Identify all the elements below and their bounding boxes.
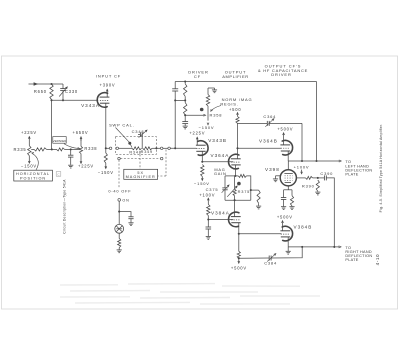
svg-text:C348: C348 — [132, 129, 145, 134]
dashed drop right — [158, 150, 166, 177]
ground — [289, 207, 294, 210]
svg-text:+100V: +100V — [199, 192, 215, 197]
svg-text:C330: C330 — [65, 89, 78, 94]
node rail drop — [174, 147, 176, 149]
wire R390 row — [297, 177, 306, 179]
svg-text:C390: C390 — [320, 171, 333, 176]
switch contact ON — [118, 198, 130, 202]
power +225V below R338 — [78, 160, 94, 169]
svg-text:V343A: V343A — [81, 103, 100, 108]
node — [238, 233, 240, 235]
svg-text:V384B: V384B — [294, 225, 313, 230]
wire drop from rail — [316, 82, 318, 162]
wire branch to C — [119, 212, 131, 217]
section header OUTPUT AMPLIFIER — [222, 70, 249, 80]
wire — [313, 177, 325, 179]
svg-text:+225V: +225V — [189, 131, 205, 136]
wire input top with signal arrow — [29, 82, 64, 85]
wire right deflection row — [288, 246, 341, 248]
wire row — [106, 147, 110, 149]
resistor R349 — [141, 147, 153, 154]
power -150V below R335 — [21, 159, 37, 169]
svg-text:+500: +500 — [229, 107, 241, 112]
svg-text:C384: C384 — [264, 261, 277, 266]
capacitor to ground — [128, 217, 133, 223]
node — [333, 246, 335, 248]
wire branch to R377 — [251, 189, 259, 191]
wire grid of V343A — [52, 99, 99, 101]
power -150V below R358 — [199, 123, 215, 130]
resistor R385 — [237, 251, 240, 258]
ground — [315, 192, 320, 195]
switch contact — [109, 147, 112, 150]
node — [201, 161, 203, 163]
svg-text:+225V: +225V — [78, 164, 94, 169]
capacitor C357 to ground — [182, 115, 188, 126]
resistor R381 — [207, 204, 210, 215]
wire cathode V364A — [234, 165, 236, 176]
left margin caption — [62, 179, 66, 234]
svg-text:Fig. 4-5. Simplified Type 541A: Fig. 4-5. Simplified Type 541A Horizonta… — [379, 124, 383, 213]
dashed calibration box — [116, 137, 157, 155]
svg-text:−150V: −150V — [21, 164, 37, 169]
capacitor C358 in drop — [172, 89, 178, 91]
ground — [183, 126, 188, 129]
tube V384B — [280, 225, 312, 241]
svg-text:V364A: V364A — [211, 153, 230, 158]
svg-text:+500V: +500V — [277, 214, 293, 219]
capacitor C364 variable — [263, 114, 302, 127]
wire rail left drop — [174, 82, 176, 89]
svg-text:R650: R650 — [34, 89, 47, 94]
power +500V at V364B — [277, 127, 293, 145]
resistor R357 — [184, 103, 187, 116]
svg-text:C375: C375 — [206, 187, 219, 192]
wire — [184, 96, 186, 102]
ground below V384B cathode — [286, 247, 291, 254]
resistor R356 — [184, 82, 187, 97]
VERNIER control box — [52, 137, 79, 150]
section header INPUT CF — [96, 74, 121, 79]
wire grid row V364B — [238, 147, 282, 149]
node — [301, 246, 303, 248]
svg-text:R338: R338 — [84, 146, 97, 151]
node — [315, 160, 317, 162]
wire wiper row — [31, 148, 34, 150]
svg-text:ON: ON — [122, 198, 129, 202]
capacitor C348 variable — [132, 129, 147, 148]
label TO LEFT HAND DEFLECTION PLATE — [345, 160, 372, 176]
wire grid row V384A — [208, 219, 233, 221]
svg-text:GAIN: GAIN — [214, 171, 227, 176]
switch contact — [118, 157, 121, 160]
svg-text:+500V: +500V — [277, 127, 293, 132]
power +100V at V384A grid — [199, 192, 215, 204]
node — [70, 148, 72, 150]
wire mag-gain bottom — [225, 199, 251, 201]
svg-text:R358: R358 — [210, 113, 223, 118]
wire grid row V384B — [239, 233, 282, 235]
svg-text:+100V: +100V — [294, 164, 310, 169]
switch contact — [160, 147, 163, 150]
tube V384A — [211, 210, 241, 226]
svg-text:PLATE: PLATE — [345, 258, 358, 262]
switch contact — [116, 147, 119, 150]
section header DRIVER CF — [188, 70, 209, 80]
svg-text:DRIVER: DRIVER — [271, 72, 292, 77]
wire — [118, 233, 120, 238]
dashed drop to magnifier box — [139, 154, 141, 169]
wire cathode V364B — [287, 151, 289, 161]
ground below C336 — [68, 165, 73, 168]
resistor R394 — [306, 176, 313, 179]
capacitor C330 variable — [59, 84, 78, 100]
wire down from R650 junction — [51, 100, 53, 149]
wire C390 to right column — [326, 178, 334, 247]
power +500 supply — [229, 107, 241, 116]
svg-text:CF: CF — [194, 74, 201, 79]
svg-text:AMPLIFIER: AMPLIFIER — [222, 74, 249, 79]
ground — [117, 250, 122, 253]
neon lamp B395 — [115, 224, 124, 233]
label C375 — [206, 187, 219, 192]
node — [238, 257, 240, 259]
potentiometer R335 — [14, 141, 32, 159]
wire — [207, 216, 209, 222]
power +500V at V384B — [277, 214, 293, 230]
resistor R390 to ground — [316, 180, 319, 192]
capacitor C390 — [320, 171, 333, 180]
ground — [281, 207, 286, 210]
svg-text:−150V: −150V — [98, 170, 114, 175]
resistor R343 to -150V — [98, 148, 114, 175]
svg-text:V343B: V343B — [208, 138, 227, 143]
wire cathode V343B — [201, 151, 203, 162]
svg-text:5X: 5X — [137, 171, 144, 175]
wire row — [119, 147, 132, 149]
power -150V — [194, 177, 210, 187]
resistor R361 — [201, 165, 204, 177]
svg-text:R335: R335 — [14, 147, 27, 152]
footnote marker box — [56, 172, 61, 177]
node — [236, 147, 238, 149]
node junction R650/C330 — [50, 83, 64, 101]
ground at R358 top — [208, 88, 217, 93]
wire C384 row — [239, 257, 269, 259]
svg-text:INPUT CF: INPUT CF — [96, 74, 121, 79]
node — [317, 177, 319, 179]
switch contact — [168, 147, 171, 150]
wire C384 to cathode row — [271, 247, 302, 258]
capacitor C381 to ground — [206, 222, 212, 237]
switch wiper dot — [128, 142, 132, 148]
ground — [206, 237, 211, 240]
wire cathode V384A — [238, 223, 240, 252]
tube V398 — [265, 167, 296, 186]
power +500V below R385 — [231, 258, 247, 270]
wire grid V398 to ground — [276, 176, 281, 179]
potentiometer R358 — [206, 88, 222, 121]
ground — [273, 179, 278, 182]
label SWP CAL. — [109, 122, 134, 142]
page number 4-10 — [375, 254, 380, 266]
wire — [163, 147, 168, 149]
power +225V at R335 — [21, 130, 37, 141]
svg-text:−150V: −150V — [199, 125, 215, 130]
resistor R348 — [129, 147, 141, 155]
dashed drop to lamp switch — [118, 160, 120, 188]
node — [51, 148, 53, 150]
wire branch — [175, 99, 185, 101]
wire — [118, 201, 120, 224]
svg-text:−150V: −150V — [194, 181, 210, 186]
svg-text:POSITION: POSITION — [20, 177, 46, 181]
wire drop right of C364 — [301, 123, 303, 161]
svg-text:4-10: 4-10 — [375, 254, 380, 266]
node — [301, 160, 303, 162]
svg-text:SWP CAL.: SWP CAL. — [109, 122, 134, 127]
label MAG GAIN — [214, 167, 227, 176]
node — [184, 99, 186, 101]
svg-text:+500V: +500V — [231, 266, 247, 271]
node — [207, 218, 209, 220]
switch contact — [160, 157, 163, 160]
section header OUTPUT CF'S & HF CAPACITANCE DRIVER — [258, 64, 308, 78]
svg-text:Circuit Description—Type 541A: Circuit Description—Type 541A — [62, 179, 66, 234]
node — [118, 211, 120, 213]
right margin caption — [379, 124, 383, 213]
resistor R398 to ground — [290, 190, 293, 207]
wire cathode V384B — [287, 237, 289, 247]
dashed link row — [120, 158, 160, 160]
capacitor C394 to ground — [281, 190, 286, 207]
wire grid row V364A — [202, 161, 233, 163]
capacitor C384 variable — [264, 254, 277, 266]
ground — [128, 223, 133, 226]
wire — [174, 91, 176, 148]
tube V364B — [259, 138, 293, 155]
svg-text:R349: R349 — [141, 150, 153, 154]
wire +225V rail — [175, 81, 316, 83]
svg-text:V384A: V384A — [211, 210, 230, 215]
wire cathode V398 — [287, 186, 289, 190]
wire cathode V343A — [105, 103, 107, 148]
svg-text:PLATE: PLATE — [345, 173, 358, 177]
wire left deflection row — [288, 160, 341, 162]
wire plate V384A — [234, 200, 236, 216]
node rail top R356 — [184, 80, 186, 82]
svg-text:+650V: +650V — [73, 130, 89, 135]
power +100V arrow — [294, 164, 310, 174]
tube V343B — [196, 138, 227, 155]
tube V343A — [81, 93, 109, 108]
svg-text:R390: R390 — [302, 184, 315, 189]
potentiometer R375 — [227, 176, 250, 200]
svg-text:V398: V398 — [265, 167, 280, 172]
resistor R650 — [34, 84, 53, 100]
svg-text:VERNIER: VERNIER — [52, 139, 67, 143]
svg-text:MAGNIFIER: MAGNIFIER — [126, 175, 156, 179]
resistor R377 to ground — [257, 190, 260, 206]
node — [234, 175, 236, 177]
wire plate V398 — [287, 161, 289, 170]
node V343A cathode row — [105, 147, 107, 149]
wire row to V343B grid — [170, 147, 196, 149]
node C364 row — [237, 123, 239, 158]
resistor R395 — [118, 239, 121, 248]
power +650V — [73, 130, 89, 141]
svg-text:HORIZONTAL: HORIZONTAL — [16, 172, 50, 176]
resistor R376 — [238, 174, 246, 177]
node — [234, 199, 236, 201]
resistor R364 — [236, 116, 239, 123]
node — [174, 99, 176, 101]
tube V364A — [211, 153, 241, 169]
node — [155, 147, 157, 149]
capacitor C336 to ground — [68, 149, 73, 164]
5X MAGNIFIER box — [124, 169, 158, 179]
potentiometer R338 — [79, 139, 97, 160]
power +225V at V343B — [189, 131, 205, 146]
label NORM/MAG REGIS. — [211, 97, 253, 111]
panel control dot — [200, 108, 204, 112]
svg-text:0-40 OFF: 0-40 OFF — [108, 189, 131, 194]
svg-text:C364: C364 — [263, 114, 276, 119]
svg-text:+390V: +390V — [100, 83, 116, 88]
wire — [118, 248, 120, 250]
ground — [256, 206, 261, 209]
svg-text:REGIS.: REGIS. — [220, 102, 238, 107]
wire row — [152, 147, 160, 149]
resistor R336 — [34, 148, 47, 151]
HORIZONTAL POSITION box — [14, 153, 53, 181]
svg-text:+225V: +225V — [21, 130, 37, 135]
wire — [235, 176, 250, 200]
label TO RIGHT HAND DEFLECTION PLATE — [345, 246, 372, 262]
wire — [47, 148, 57, 150]
node — [184, 114, 186, 116]
svg-text:V364B: V364B — [259, 138, 278, 143]
wire cathode branches — [284, 189, 292, 191]
resistor R337 — [57, 148, 65, 151]
node — [250, 189, 252, 191]
wire C364 row — [238, 122, 268, 124]
capacitor C375 variable — [222, 176, 229, 200]
label 0-40 OFF — [108, 189, 131, 194]
label R390 — [302, 184, 315, 189]
svg-text:R375: R375 — [238, 189, 251, 194]
wire wiper arrow to R358 — [185, 114, 205, 116]
wire mag-gain top left — [225, 175, 235, 177]
wire — [65, 148, 81, 150]
power +390V — [100, 83, 116, 98]
